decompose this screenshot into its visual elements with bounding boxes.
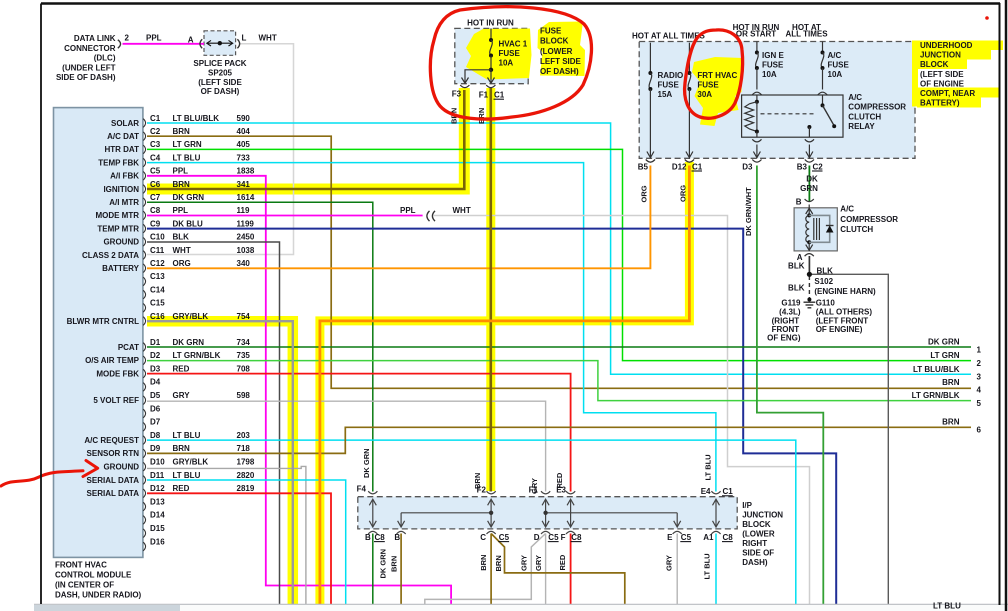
svg-text:734: 734 <box>237 338 251 347</box>
svg-text:A/I MTR: A/I MTR <box>109 198 139 207</box>
svg-text:2450: 2450 <box>237 233 255 242</box>
svg-text:3: 3 <box>977 372 982 381</box>
svg-text:A1: A1 <box>703 533 714 542</box>
svg-text:OF ENGINE): OF ENGINE) <box>816 325 863 334</box>
svg-text:BRN: BRN <box>477 108 486 124</box>
svg-text:BLWR MTR CNTRL: BLWR MTR CNTRL <box>67 317 140 326</box>
svg-text:LT BLU: LT BLU <box>173 153 201 162</box>
svg-text:D2: D2 <box>150 351 161 360</box>
svg-text:ORG: ORG <box>640 185 649 202</box>
svg-text:C13: C13 <box>150 272 165 281</box>
svg-text:1614: 1614 <box>237 193 255 202</box>
svg-text:GRY: GRY <box>534 555 543 571</box>
svg-text:(UNDER LEFT: (UNDER LEFT <box>62 63 115 72</box>
svg-text:LT BLU: LT BLU <box>703 553 712 579</box>
svg-text:WHT: WHT <box>173 246 191 255</box>
svg-text:C: C <box>480 533 486 542</box>
svg-text:A/C: A/C <box>840 205 854 214</box>
svg-text:G119: G119 <box>781 299 801 308</box>
svg-text:GRY: GRY <box>173 391 191 400</box>
svg-text:1199: 1199 <box>237 219 255 228</box>
svg-text:SOLAR: SOLAR <box>111 119 139 128</box>
svg-text:C1: C1 <box>150 114 161 123</box>
svg-text:C15: C15 <box>150 299 165 308</box>
svg-text:BATTERY): BATTERY) <box>920 99 960 108</box>
svg-text:10A: 10A <box>499 59 514 68</box>
svg-text:OF DASH): OF DASH) <box>201 87 240 96</box>
svg-text:LT BLU/BLK: LT BLU/BLK <box>913 365 960 374</box>
svg-text:BATTERY: BATTERY <box>102 264 140 273</box>
svg-text:FUSE: FUSE <box>658 80 680 89</box>
svg-text:(LEFT SIDE: (LEFT SIDE <box>920 70 964 79</box>
svg-text:10A: 10A <box>762 70 777 79</box>
svg-text:D13: D13 <box>150 497 165 506</box>
svg-text:C1: C1 <box>692 162 703 171</box>
svg-text:BLK: BLK <box>173 233 190 242</box>
svg-text:CLUTCH: CLUTCH <box>840 225 873 234</box>
svg-text:L: L <box>242 33 247 42</box>
svg-text:DK GRN: DK GRN <box>379 549 388 579</box>
svg-text:C4: C4 <box>150 153 161 162</box>
svg-text:D10: D10 <box>150 458 165 467</box>
svg-text:2: 2 <box>977 359 982 368</box>
svg-text:DK GRN: DK GRN <box>362 448 371 478</box>
svg-text:(LEFT SIDE: (LEFT SIDE <box>198 78 242 87</box>
svg-text:D11: D11 <box>150 471 165 480</box>
svg-text:D3: D3 <box>150 364 161 373</box>
svg-text:C6: C6 <box>150 180 161 189</box>
svg-text:C2: C2 <box>150 127 161 136</box>
svg-text:2820: 2820 <box>237 471 255 480</box>
svg-text:D16: D16 <box>150 537 165 546</box>
svg-text:LT BLU: LT BLU <box>704 454 713 480</box>
svg-text:(IN CENTER OF: (IN CENTER OF <box>55 581 114 590</box>
svg-text:F: F <box>561 533 566 542</box>
svg-text:LT BLU: LT BLU <box>173 431 201 440</box>
svg-text:RED: RED <box>558 554 567 570</box>
svg-text:BRN: BRN <box>479 555 488 571</box>
svg-text:A: A <box>797 253 803 262</box>
svg-text:FUSE: FUSE <box>828 60 850 69</box>
svg-text:C1: C1 <box>723 487 734 496</box>
svg-text:I/P: I/P <box>742 501 752 510</box>
svg-text:SP205: SP205 <box>208 68 233 77</box>
svg-text:10A: 10A <box>828 70 843 79</box>
svg-text:A/C REQUEST: A/C REQUEST <box>84 436 139 445</box>
svg-text:IGNITION: IGNITION <box>103 185 139 194</box>
svg-text:LT GRN/BLK: LT GRN/BLK <box>173 351 221 360</box>
svg-text:DK GRN: DK GRN <box>928 338 960 347</box>
svg-text:LT GRN: LT GRN <box>930 351 959 360</box>
svg-text:GRY/BLK: GRY/BLK <box>173 458 209 467</box>
svg-text:COMPT, NEAR: COMPT, NEAR <box>920 89 975 98</box>
svg-text:1038: 1038 <box>237 246 255 255</box>
svg-text:A/C: A/C <box>848 93 862 102</box>
svg-text:FRONT: FRONT <box>772 325 800 334</box>
svg-text:SIDE OF: SIDE OF <box>742 548 774 557</box>
svg-text:FUSE: FUSE <box>697 80 719 89</box>
svg-text:SPLICE PACK: SPLICE PACK <box>193 59 246 68</box>
svg-text:A/C DAT: A/C DAT <box>107 132 139 141</box>
svg-text:BRN: BRN <box>173 444 191 453</box>
svg-text:F1: F1 <box>479 90 489 99</box>
svg-text:FUSE: FUSE <box>540 27 562 36</box>
svg-text:733: 733 <box>237 153 251 162</box>
svg-text:C5: C5 <box>150 167 161 176</box>
svg-text:SIDE OF DASH): SIDE OF DASH) <box>56 73 116 82</box>
svg-text:DK GRN: DK GRN <box>173 193 205 202</box>
svg-text:WHT: WHT <box>453 206 471 215</box>
svg-text:CONTROL MODULE: CONTROL MODULE <box>55 571 132 580</box>
svg-text:HVAC 1: HVAC 1 <box>499 39 528 48</box>
svg-text:ALL TIMES: ALL TIMES <box>785 30 828 39</box>
svg-text:(4.3L): (4.3L) <box>779 308 801 317</box>
svg-text:E3: E3 <box>556 485 566 494</box>
svg-text:RIGHT: RIGHT <box>742 539 767 548</box>
svg-text:LEFT SIDE: LEFT SIDE <box>540 57 582 66</box>
svg-text:D6: D6 <box>150 404 161 413</box>
svg-text:C2: C2 <box>813 162 824 171</box>
svg-text:C10: C10 <box>150 233 165 242</box>
svg-text:S102: S102 <box>814 277 833 286</box>
svg-text:D3: D3 <box>742 162 753 171</box>
svg-text:C7: C7 <box>150 193 161 202</box>
svg-text:A: A <box>188 36 194 45</box>
svg-text:ORG: ORG <box>679 185 688 202</box>
svg-text:BRN: BRN <box>942 418 960 427</box>
svg-text:598: 598 <box>237 391 251 400</box>
svg-text:B: B <box>394 533 400 542</box>
svg-text:754: 754 <box>237 312 251 321</box>
svg-text:CONNECTOR: CONNECTOR <box>64 44 116 53</box>
svg-text:DK GRN: DK GRN <box>173 338 205 347</box>
svg-text:PPL: PPL <box>173 206 189 215</box>
svg-text:C8: C8 <box>571 533 582 542</box>
svg-text:F3: F3 <box>452 90 462 99</box>
svg-text:FRONT HVAC: FRONT HVAC <box>55 561 107 570</box>
svg-text:HOT IN RUN: HOT IN RUN <box>467 19 514 28</box>
svg-text:708: 708 <box>237 364 251 373</box>
svg-text:DK: DK <box>806 175 818 184</box>
svg-text:D12: D12 <box>150 484 165 493</box>
svg-text:FUSE: FUSE <box>762 60 784 69</box>
svg-text:OF ENGINE: OF ENGINE <box>920 79 965 88</box>
svg-text:F4: F4 <box>357 484 367 493</box>
svg-text:BLK: BLK <box>788 262 805 271</box>
svg-text:E: E <box>667 533 673 542</box>
svg-text:D5: D5 <box>150 391 161 400</box>
svg-text:BRN: BRN <box>173 127 191 136</box>
svg-text:DASH, UNDER RADIO): DASH, UNDER RADIO) <box>55 591 142 600</box>
svg-text:30A: 30A <box>697 90 712 99</box>
svg-text:BRN: BRN <box>173 180 191 189</box>
svg-text:DATA LINK: DATA LINK <box>74 34 116 43</box>
svg-text:340: 340 <box>237 259 251 268</box>
svg-text:HTR DAT: HTR DAT <box>104 145 139 154</box>
svg-text:B5: B5 <box>638 162 649 171</box>
svg-text:LT BLU/BLK: LT BLU/BLK <box>173 114 220 123</box>
svg-text:COMPRESSOR: COMPRESSOR <box>840 215 898 224</box>
svg-text:119: 119 <box>237 206 250 215</box>
svg-text:BLK: BLK <box>788 283 805 292</box>
svg-text:BLOCK: BLOCK <box>742 520 771 529</box>
svg-text:GRY: GRY <box>665 555 674 571</box>
svg-text:5: 5 <box>977 399 982 408</box>
svg-text:4: 4 <box>977 386 982 395</box>
svg-text:RED: RED <box>173 484 190 493</box>
svg-text:C8: C8 <box>150 206 161 215</box>
svg-text:405: 405 <box>237 140 251 149</box>
svg-text:LT BLU: LT BLU <box>933 602 961 611</box>
svg-text:C12: C12 <box>150 259 165 268</box>
svg-text:6: 6 <box>977 425 982 434</box>
svg-text:C8: C8 <box>375 533 386 542</box>
svg-text:GRY: GRY <box>520 555 529 571</box>
svg-text:SERIAL DATA: SERIAL DATA <box>87 476 140 485</box>
svg-text:718: 718 <box>237 444 251 453</box>
svg-text:1: 1 <box>977 345 982 354</box>
svg-text:SENSOR RTN: SENSOR RTN <box>87 449 140 458</box>
svg-text:O/S AIR TEMP: O/S AIR TEMP <box>85 356 140 365</box>
svg-text:C8: C8 <box>723 533 734 542</box>
svg-text:COMPRESSOR: COMPRESSOR <box>848 103 906 112</box>
svg-text:FRT HVAC: FRT HVAC <box>697 71 737 80</box>
svg-text:GROUND: GROUND <box>103 238 139 247</box>
svg-text:DK GRN/WHT: DK GRN/WHT <box>744 187 753 236</box>
svg-text:C16: C16 <box>150 312 165 321</box>
svg-text:DK BLU: DK BLU <box>173 219 203 228</box>
svg-text:DASH): DASH) <box>742 558 768 567</box>
svg-text:LT BLU: LT BLU <box>173 471 201 480</box>
svg-text:(DLC): (DLC) <box>94 54 116 63</box>
svg-text:15A: 15A <box>658 90 673 99</box>
svg-text:C5: C5 <box>499 533 510 542</box>
svg-text:B: B <box>796 198 802 207</box>
svg-text:GRY/BLK: GRY/BLK <box>173 312 209 321</box>
svg-text:C5: C5 <box>681 533 692 542</box>
svg-text:C11: C11 <box>150 246 165 255</box>
svg-text:C1: C1 <box>494 90 505 99</box>
svg-text:SERIAL DATA: SERIAL DATA <box>87 489 140 498</box>
svg-text:590: 590 <box>237 114 251 123</box>
svg-text:CLASS 2 DATA: CLASS 2 DATA <box>82 251 139 260</box>
svg-text:UNDERHOOD: UNDERHOOD <box>920 41 973 50</box>
svg-text:B: B <box>365 533 371 542</box>
svg-text:G110: G110 <box>816 299 836 308</box>
svg-text:MODE FBK: MODE FBK <box>96 369 139 378</box>
svg-text:735: 735 <box>237 351 251 360</box>
svg-text:OR START: OR START <box>736 30 776 39</box>
svg-text:D4: D4 <box>150 378 161 387</box>
svg-text:2819: 2819 <box>237 484 255 493</box>
svg-text:203: 203 <box>237 431 251 440</box>
svg-text:TEMP MTR: TEMP MTR <box>97 224 139 233</box>
svg-text:C14: C14 <box>150 285 165 294</box>
svg-text:LT GRN/BLK: LT GRN/BLK <box>912 391 960 400</box>
svg-text:C5: C5 <box>548 533 559 542</box>
svg-text:ORG: ORG <box>173 259 191 268</box>
svg-text:5 VOLT REF: 5 VOLT REF <box>93 396 139 405</box>
svg-text:BRN: BRN <box>390 556 399 572</box>
svg-text:CLUTCH: CLUTCH <box>848 112 881 121</box>
svg-text:B3: B3 <box>797 162 808 171</box>
svg-text:TEMP FBK: TEMP FBK <box>98 158 139 167</box>
svg-text:FUSE: FUSE <box>499 49 521 58</box>
svg-text:BRN: BRN <box>942 378 960 387</box>
svg-text:D8: D8 <box>150 431 161 440</box>
svg-text:D14: D14 <box>150 511 165 520</box>
svg-text:404: 404 <box>237 127 251 136</box>
svg-text:GROUND: GROUND <box>103 463 139 472</box>
svg-text:C9: C9 <box>150 219 161 228</box>
svg-text:RELAY: RELAY <box>848 122 875 131</box>
svg-text:D15: D15 <box>150 524 165 533</box>
svg-text:OF ENG): OF ENG) <box>767 334 801 343</box>
svg-text:RED: RED <box>173 364 190 373</box>
svg-text:(ENGINE HARN): (ENGINE HARN) <box>814 287 876 296</box>
svg-text:PPL: PPL <box>146 33 162 42</box>
svg-text:BLOCK: BLOCK <box>920 60 949 69</box>
svg-text:OF DASH): OF DASH) <box>540 67 579 76</box>
svg-text:D12: D12 <box>672 162 687 171</box>
svg-text:BLK: BLK <box>817 266 834 275</box>
svg-text:2: 2 <box>125 33 130 42</box>
svg-text:A/I FBK: A/I FBK <box>110 172 139 181</box>
svg-text:341: 341 <box>237 180 251 189</box>
svg-text:PPL: PPL <box>400 206 416 215</box>
svg-text:MODE MTR: MODE MTR <box>95 211 139 220</box>
svg-text:D: D <box>534 533 540 542</box>
svg-text:(LOWER: (LOWER <box>742 529 775 538</box>
svg-text:E4: E4 <box>701 487 711 496</box>
svg-text:C3: C3 <box>150 140 161 149</box>
svg-text:(LOWER: (LOWER <box>540 47 573 56</box>
svg-text:D1: D1 <box>150 338 161 347</box>
svg-text:PPL: PPL <box>173 167 189 176</box>
svg-text:WHT: WHT <box>259 33 277 42</box>
svg-text:LT GRN: LT GRN <box>173 140 202 149</box>
svg-text:A/C: A/C <box>828 51 842 60</box>
svg-text:IGN E: IGN E <box>762 51 784 60</box>
svg-text:BRN: BRN <box>494 555 503 571</box>
svg-text:F1: F1 <box>529 485 539 494</box>
svg-text:1798: 1798 <box>237 458 255 467</box>
svg-text:1838: 1838 <box>237 167 255 176</box>
svg-text:JUNCTION: JUNCTION <box>920 51 961 60</box>
svg-text:BLOCK: BLOCK <box>540 37 569 46</box>
svg-text:RADIO: RADIO <box>658 71 684 80</box>
svg-text:PCAT: PCAT <box>118 343 139 352</box>
svg-text:(ALL OTHERS): (ALL OTHERS) <box>816 308 873 317</box>
svg-text:D7: D7 <box>150 418 161 427</box>
svg-text:JUNCTION: JUNCTION <box>742 510 783 519</box>
svg-text:GRN: GRN <box>800 184 818 193</box>
svg-text:D9: D9 <box>150 444 161 453</box>
svg-text:F2: F2 <box>477 485 487 494</box>
